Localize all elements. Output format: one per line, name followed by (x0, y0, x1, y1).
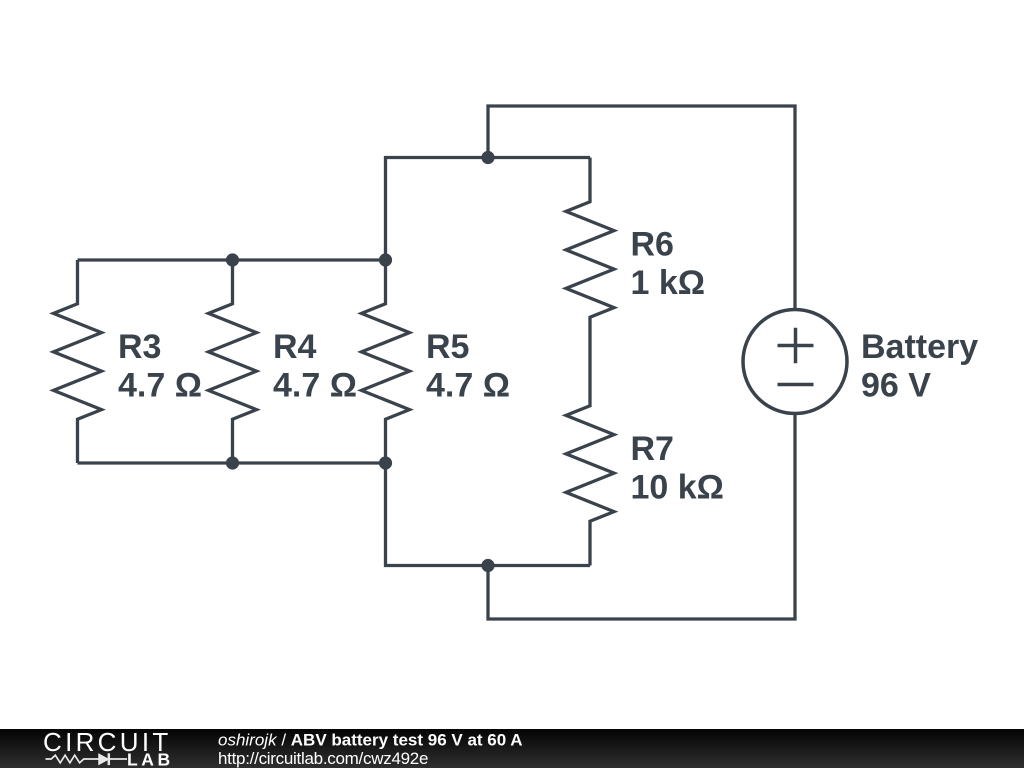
node junction dot (379, 456, 392, 469)
wire (386, 158, 591, 261)
node junction dot (226, 253, 239, 266)
svg-text:Battery: Battery (861, 328, 978, 366)
svg-text:R5: R5 (426, 328, 469, 366)
node junction dot (481, 559, 494, 572)
svg-text:10 kΩ: 10 kΩ (631, 468, 724, 506)
logo wire after diode (109, 758, 127, 760)
resistor R7 (566, 362, 614, 566)
node junction dot (481, 151, 494, 164)
logo diode cathode bar (108, 753, 111, 765)
svg-text:1 kΩ: 1 kΩ (631, 264, 706, 302)
logo diode triangle (99, 754, 108, 764)
battery plus sign (778, 328, 814, 364)
svg-text:4.7 Ω: 4.7 Ω (118, 366, 202, 404)
svg-text:oshirojk / ABV battery test 96: oshirojk / ABV battery test 96 V at 60 A (218, 731, 523, 750)
resistor R4 (209, 260, 257, 463)
svg-text:4.7 Ω: 4.7 Ω (273, 366, 357, 404)
wire (78, 258, 386, 261)
resistor R6 (566, 158, 614, 362)
svg-text:R4: R4 (273, 328, 317, 366)
wire (386, 463, 591, 566)
svg-text:R6: R6 (631, 226, 674, 264)
svg-text:LAB: LAB (127, 750, 174, 768)
svg-text:http://circuitlab.com/cwz492e: http://circuitlab.com/cwz492e (218, 749, 428, 768)
wire (488, 414, 795, 620)
svg-text:4.7 Ω: 4.7 Ω (426, 366, 510, 404)
svg-text:96 V: 96 V (861, 366, 931, 404)
svg-text:R7: R7 (631, 430, 674, 468)
resistor R5 (362, 260, 410, 463)
logo resistor symbol (46, 755, 100, 763)
node junction dot (379, 253, 392, 266)
wire (78, 461, 386, 464)
battery minus sign (778, 383, 814, 387)
node junction dot (226, 456, 239, 469)
resistor R3 (54, 260, 102, 463)
svg-text:R3: R3 (118, 328, 161, 366)
wire (488, 106, 795, 310)
footer bar (0, 729, 1024, 768)
battery V1 circle (743, 310, 847, 414)
